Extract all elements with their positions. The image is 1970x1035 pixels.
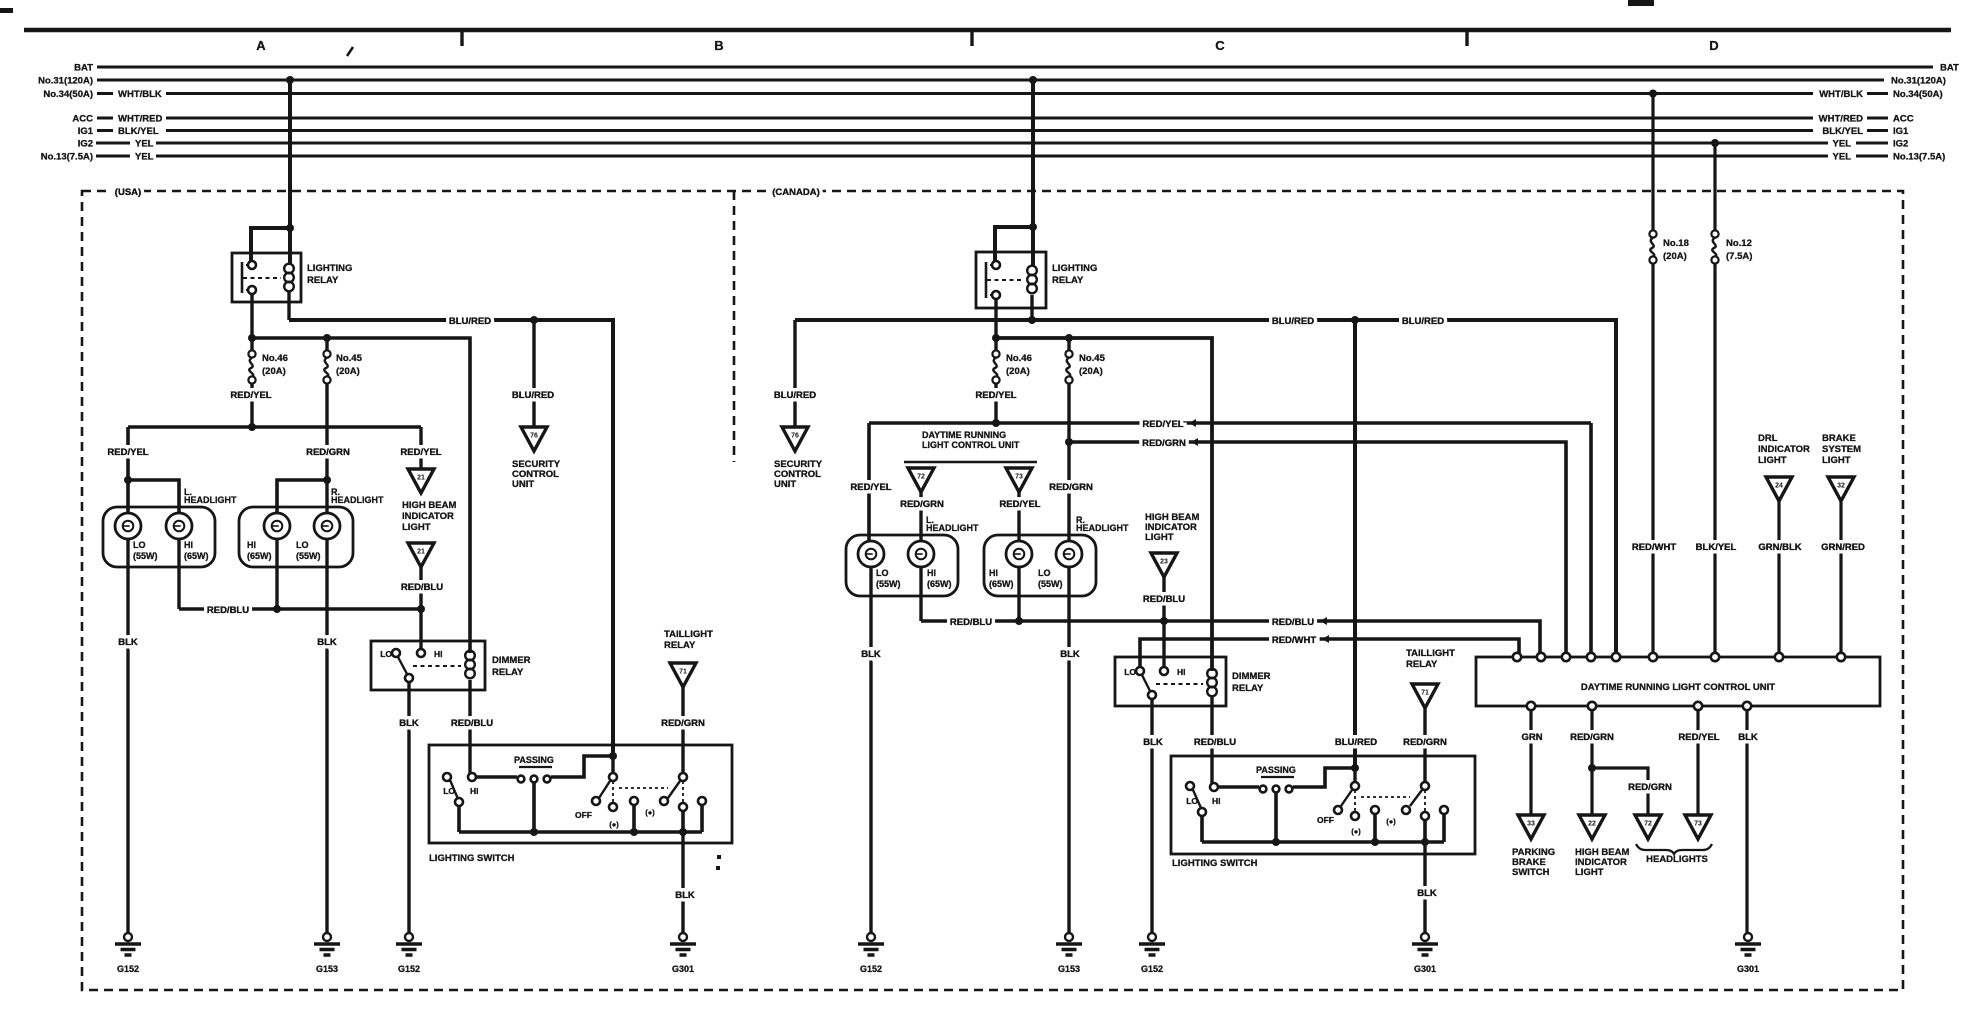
svg-text:YEL: YEL	[1833, 139, 1852, 150]
svg-text:HI: HI	[989, 568, 998, 578]
wire: drop to high beam indicator (USA)	[419, 427, 422, 469]
switch: LIGHTING SWITCH (CANADA) box	[1171, 756, 1475, 854]
dimmer CANADA coil	[1207, 669, 1217, 679]
svg-text:71: 71	[1421, 690, 1429, 697]
connector 73 triangle (headlights pair)	[1685, 815, 1711, 839]
CANADA rotary-2 left contact	[1402, 806, 1410, 814]
svg-text:(USA): (USA)	[115, 187, 141, 198]
node: BLU/RED tap to lighting switch (CANADA)	[1351, 316, 1359, 324]
wire: fuse No.46 output RED/YEL (USA)	[250, 384, 253, 427]
svg-text:(●): (●)	[645, 808, 655, 817]
bulb HI (65W) CANADA R	[1006, 541, 1032, 567]
svg-text:RED/GRN: RED/GRN	[1049, 482, 1093, 493]
node: CANADA relay branch junction	[1029, 223, 1037, 231]
wire: PASSING mid contact to bus (USA)	[532, 783, 536, 832]
svg-text:BLK/YEL: BLK/YEL	[1822, 126, 1863, 137]
svg-text:G152: G152	[117, 964, 139, 974]
svg-text:RED/BLU: RED/BLU	[1143, 594, 1185, 605]
svg-text:G301: G301	[1737, 964, 1759, 974]
relay U1: LIGHTING RELAY (USA) box	[232, 253, 301, 302]
svg-text:(55W): (55W)	[133, 551, 158, 561]
CANADA rotary-1 OFF contact	[1334, 806, 1342, 814]
CANADA rotary-2 mid contact	[1421, 812, 1429, 820]
fuse No.46 (20A) USA	[248, 350, 255, 357]
svg-text:RED/YEL: RED/YEL	[999, 499, 1040, 510]
svg-text:No.45: No.45	[1079, 353, 1106, 364]
dimmer USA pin LO	[392, 649, 400, 657]
scan artifact top-right	[1628, 0, 1654, 6]
svg-text:GRN/RED: GRN/RED	[1821, 542, 1865, 553]
svg-text:No.34(50A): No.34(50A)	[1893, 89, 1943, 100]
svg-text:(CANADA): (CANADA)	[772, 187, 820, 198]
connector 21 triangle upper (USA)	[408, 469, 434, 493]
CANADA rotary-1 right contact	[1371, 806, 1379, 814]
svg-text:INDICATOR: INDICATOR	[1758, 444, 1810, 455]
CANADA rotary link dashed	[1361, 796, 1410, 798]
connector 76 triangle (CANADA security)	[782, 427, 808, 451]
PASSING contact cups (USA)	[518, 776, 525, 783]
svg-text:HI: HI	[184, 540, 193, 550]
wire: L HI bulb to RED/BLU bar (USA)	[177, 539, 180, 609]
svg-text:BLK: BLK	[1738, 732, 1758, 743]
svg-text:G152: G152	[1141, 964, 1163, 974]
svg-text:YEL: YEL	[1833, 152, 1852, 163]
svg-text:BLK: BLK	[317, 637, 337, 648]
scan artifact top-left	[0, 8, 13, 13]
wire: HI contact to PASSING (CANADA)	[1218, 785, 1259, 789]
svg-text:HI: HI	[1212, 796, 1221, 806]
CANADA relay dashed link	[987, 279, 1024, 281]
CANADA switch HI contact	[1210, 783, 1218, 791]
svg-text:TAILLIGHT: TAILLIGHT	[664, 629, 713, 640]
DRL unit bottom pins	[1527, 702, 1535, 710]
svg-text:BLU/RED: BLU/RED	[774, 390, 816, 401]
svg-text:LIGHT: LIGHT	[1145, 532, 1174, 543]
svg-text:LIGHT CONTROL UNIT: LIGHT CONTROL UNIT	[922, 440, 1020, 450]
svg-text:RELAY: RELAY	[492, 667, 524, 678]
connector 23 triangle (CANADA high beam ind)	[1151, 553, 1177, 577]
ground G153 (CANADA R headlight)	[1065, 933, 1073, 941]
wire: RED/BLU bar (USA)	[179, 607, 421, 611]
svg-text:LIGHTING SWITCH: LIGHTING SWITCH	[1172, 858, 1258, 869]
svg-text:PASSING: PASSING	[1256, 765, 1296, 775]
ground G301 (DRL unit)	[1744, 933, 1752, 941]
wire: BLU/RED down to security unit (CANADA)	[793, 320, 796, 427]
svg-text:SYSTEM: SYSTEM	[1822, 444, 1861, 455]
wire: USA relay branch to switch pin	[251, 228, 290, 265]
svg-text:BLK: BLK	[1060, 649, 1080, 660]
svg-text:LO: LO	[133, 540, 146, 550]
wire: to fuse No.18	[1651, 94, 1654, 232]
bus line No.13(7.5A) (YEL)	[156, 155, 1828, 158]
svg-text:DAYTIME RUNNING LIGHT CONTROL: DAYTIME RUNNING LIGHT CONTROL UNIT	[1581, 682, 1775, 693]
node: BLU/RED entry junction (CANADA)	[1351, 764, 1359, 772]
svg-text:HEADLIGHT: HEADLIGHT	[926, 523, 979, 533]
svg-text:C: C	[1215, 38, 1225, 53]
svg-text:BLU/RED: BLU/RED	[449, 316, 491, 327]
svg-text:OFF: OFF	[575, 810, 592, 820]
USA rotary-1 right contact	[630, 797, 638, 805]
svg-text:LO: LO	[1038, 568, 1051, 578]
dashed divider USA/CANADA	[733, 191, 736, 462]
wire: switch ground bus (USA)	[459, 830, 702, 834]
wire: DRL output BLK to ground G301	[1745, 710, 1748, 933]
node: BLU/RED entry junction (USA)	[609, 752, 617, 760]
svg-text:GRN/BLK: GRN/BLK	[1758, 542, 1801, 553]
CANADA switch LO contact	[1186, 782, 1194, 790]
wire: stub to fuse No.45 (USA)	[325, 338, 328, 351]
wire: drop to L.headlight (USA)	[126, 427, 130, 513]
wire: BLU/RED run (CANADA)	[795, 320, 1616, 657]
wire: L LO ground lead BLK (CANADA)	[869, 567, 872, 933]
wire: DRL output GRN to parking brake switch	[1529, 710, 1532, 815]
svg-text:WHT/RED: WHT/RED	[1819, 114, 1863, 125]
U1 dashed link to coil	[243, 277, 281, 279]
dimmer USA common pin	[405, 674, 413, 682]
svg-text:RED/BLU: RED/BLU	[207, 605, 249, 616]
wire: DRL output RED/GRN to high beam indicator light	[1590, 710, 1593, 815]
ground G153 (USA R headlight)	[323, 933, 331, 941]
svg-text:YEL: YEL	[135, 139, 154, 150]
svg-text:No.13(7.5A): No.13(7.5A)	[1893, 152, 1945, 163]
svg-text:BLU/RED: BLU/RED	[1272, 316, 1314, 327]
svg-text:(20A): (20A)	[1663, 251, 1687, 262]
svg-text:UNIT: UNIT	[774, 479, 796, 490]
headlight assembly: R. HEADLIGHT (CANADA) box	[984, 535, 1096, 596]
fuse No.45 (20A) USA	[323, 350, 330, 357]
bulb LO (55W) CANADA L	[858, 541, 884, 567]
wire: CANADA relay coil output to BLU/RED run	[1030, 295, 1033, 320]
svg-text:ACC: ACC	[72, 114, 93, 125]
wire: fuse No.12 output BLK/YEL to DRL unit	[1713, 263, 1716, 657]
scan artifact colon (USA)	[717, 855, 721, 859]
ground G152 (USA dimmer)	[405, 933, 413, 941]
connector 32 triangle (brake system light)	[1828, 477, 1854, 501]
wire: L LO bulb ground lead BLK (USA)	[126, 539, 129, 933]
wire: common to switch bus (USA)	[457, 806, 461, 832]
wire: fuse No.18 output RED/WHT to DRL unit	[1651, 263, 1654, 657]
ground G152 (CANADA L headlight)	[867, 933, 875, 941]
USA switch LO contact	[443, 773, 451, 781]
svg-text:HI: HI	[470, 786, 479, 796]
CANADA relay coil	[1027, 266, 1037, 276]
svg-text:BAT: BAT	[74, 63, 93, 74]
svg-text:G301: G301	[1414, 964, 1436, 974]
node: fuse No.18 tap on WHT/BLK bus	[1649, 90, 1657, 98]
svg-text:IG1: IG1	[1893, 126, 1909, 137]
connector 71 triangle taillight (CANADA)	[1412, 684, 1438, 708]
wire: rotary-1 right contact to bus (USA)	[632, 805, 636, 832]
wire: RED/BLU bar to DRL unit (CANADA)	[921, 621, 1540, 657]
svg-text:BLU/RED: BLU/RED	[1402, 316, 1444, 327]
svg-text:SWITCH: SWITCH	[1512, 867, 1550, 878]
ruler tick C|D	[1465, 32, 1468, 46]
CANADA rotary-1 dashed mid	[1354, 790, 1356, 812]
svg-text:RED/BLU: RED/BLU	[1272, 617, 1314, 628]
wire: dimmer coil to lighting switch RED/BLU (USA)	[468, 680, 471, 777]
svg-text:LO: LO	[296, 540, 309, 550]
USA rotary-2 right contact	[698, 797, 706, 805]
bus line IG1 (BLK/YEL)	[166, 129, 1813, 132]
USA rotary-2 arm	[668, 781, 680, 798]
svg-text:BLU/RED: BLU/RED	[1335, 737, 1377, 748]
wire: 73 to R HI bulb RED/YEL (CANADA)	[1017, 492, 1020, 541]
bulb HI (65W) left USA	[166, 513, 192, 539]
svg-text:No.13(7.5A): No.13(7.5A)	[41, 152, 93, 163]
CANADA rotary-1 mid contact	[1351, 812, 1359, 820]
wire: L HI bulb to RED/BLU bar (CANADA)	[919, 567, 922, 621]
svg-text:22: 22	[1588, 821, 1596, 828]
relay: DIMMER RELAY (CANADA) box	[1115, 657, 1226, 706]
svg-text:BLK: BLK	[1143, 737, 1163, 748]
bulb LO (55W) right USA	[314, 513, 340, 539]
connector 21 triangle lower (USA)	[408, 543, 434, 567]
wire: branch to L HI bulb (USA)	[128, 480, 179, 513]
node: USA relay branch junction	[286, 224, 294, 232]
connector 22 triangle (high beam indicator light)	[1579, 815, 1605, 839]
svg-text:No.46: No.46	[1006, 353, 1032, 364]
svg-text:TAILLIGHT: TAILLIGHT	[1406, 648, 1455, 659]
svg-text:(65W): (65W)	[989, 579, 1014, 589]
node: USA fuse-tie junction	[248, 334, 256, 342]
brace under headlight connectors	[1636, 844, 1712, 854]
dimmer USA pin HI	[417, 649, 425, 657]
svg-text:BLK: BLK	[118, 637, 138, 648]
svg-text:BLK: BLK	[675, 890, 695, 901]
svg-text:33: 33	[1527, 821, 1535, 828]
CANADA rotary-2 right contact	[1440, 806, 1448, 814]
svg-text:76: 76	[530, 433, 538, 440]
svg-text:LIGHT: LIGHT	[1758, 455, 1787, 466]
svg-text:BLK/YEL: BLK/YEL	[1696, 542, 1737, 553]
wire: dimmer common to ground BLK (USA)	[407, 682, 410, 933]
wire: to fuse No.12	[1713, 143, 1716, 231]
svg-text:(55W): (55W)	[296, 551, 321, 561]
wire: indicator to RED/BLU bar and dimmer HI (CANADA)	[1162, 577, 1165, 671]
svg-text:(65W): (65W)	[184, 551, 209, 561]
svg-text:LIGHT: LIGHT	[1822, 455, 1851, 466]
svg-text:RED/GRN: RED/GRN	[1570, 732, 1614, 743]
svg-text:RED/YEL: RED/YEL	[1142, 419, 1183, 430]
dimmer USA coil	[465, 651, 475, 661]
USA rotary-1 mid contact	[609, 803, 617, 811]
svg-text:(65W): (65W)	[927, 579, 952, 589]
CANADA rotary-1 pivot	[1351, 782, 1359, 790]
wire: RED/GRN bar to DRL unit (CANADA)	[1069, 442, 1566, 657]
svg-text:No.18: No.18	[1663, 238, 1689, 249]
svg-text:RED/GRN: RED/GRN	[1403, 737, 1447, 748]
ground G152 (CANADA dimmer)	[1148, 933, 1156, 941]
wire: high beam indicator to RED/BLU net (USA)	[419, 567, 422, 609]
node: CANADA feed tap on No.31 bus	[1029, 76, 1037, 84]
connector 71 triangle taillight (USA)	[670, 663, 696, 687]
svg-text:PASSING: PASSING	[514, 755, 554, 765]
svg-text:DIMMER: DIMMER	[1232, 671, 1271, 682]
svg-text:(●): (●)	[1386, 817, 1396, 826]
svg-text:OFF: OFF	[1317, 815, 1334, 825]
wire: RED/BLU bar to dimmer HI pin (USA)	[419, 609, 422, 653]
USA rotary-2 mid contact	[679, 803, 687, 811]
wire: brake light GRN/RED to DRL unit	[1839, 501, 1842, 657]
svg-text:HEADLIGHT: HEADLIGHT	[331, 495, 384, 505]
svg-text:INDICATOR: INDICATOR	[402, 511, 454, 522]
dimmer CANADA pin HI	[1160, 667, 1168, 675]
USA switch HI contact	[468, 773, 476, 781]
node: fuse No.12 tap on IG2 YEL bus	[1711, 139, 1719, 147]
CANADA dimmer-select common	[1198, 808, 1206, 816]
bulb LO (55W) left USA	[115, 513, 141, 539]
wire: 72 to L HI bulb RED/GRN (CANADA)	[919, 492, 922, 541]
svg-text:RELAY: RELAY	[1406, 659, 1438, 670]
svg-text:LO: LO	[876, 568, 889, 578]
svg-text:(20A): (20A)	[1006, 366, 1030, 377]
U1 armature bar	[241, 262, 244, 293]
node: R.headlight feed split (USA)	[323, 476, 331, 484]
svg-text:BLK: BLK	[861, 649, 881, 660]
node: R HI tap (CANADA)	[1015, 617, 1023, 625]
bracket line under DRL connector label	[904, 461, 1037, 463]
wire: R LO ground lead BLK (CANADA)	[1067, 567, 1070, 933]
svg-text:G153: G153	[316, 964, 338, 974]
svg-text:LO: LO	[1124, 667, 1136, 677]
wire: fuse No.46 output RED/YEL (CANADA)	[994, 384, 997, 423]
USA rotary-2 pivot	[679, 773, 687, 781]
wire: branch to connector 72	[1592, 768, 1648, 815]
wire: bus to ground G301 (CANADA)	[1423, 842, 1426, 933]
ground G301 (USA lighting switch)	[679, 933, 687, 941]
svg-text:RED/GRN: RED/GRN	[1628, 782, 1672, 793]
svg-text:RED/GRN: RED/GRN	[900, 499, 944, 510]
wire: BLU/RED drop to lighting switch (CANADA)	[1353, 320, 1357, 768]
svg-text:No.34(50A): No.34(50A)	[43, 89, 93, 100]
svg-text:RELAY: RELAY	[1232, 683, 1264, 694]
svg-text:DRL: DRL	[1758, 433, 1778, 444]
svg-text:BLK: BLK	[399, 718, 419, 729]
wire: rotary-2 right contact down to bus (USA)	[700, 805, 704, 832]
svg-text:GRN: GRN	[1521, 732, 1542, 743]
U1 coil	[284, 264, 294, 274]
svg-text:21: 21	[417, 549, 425, 556]
wire: R HI bulb to RED/BLU bar (CANADA)	[1017, 567, 1020, 621]
svg-text:IG1: IG1	[78, 126, 94, 137]
wire: rotary-2 mid to bus (CANADA)	[1423, 820, 1427, 842]
svg-text:No.31(120A): No.31(120A)	[1891, 76, 1946, 87]
wire: BLU/RED entry to rotary pivot (USA)	[611, 756, 614, 773]
node: RED/YEL distribution junction (USA)	[248, 423, 256, 431]
svg-text:(7.5A): (7.5A)	[1726, 251, 1752, 262]
USA dimmer-select common	[455, 798, 463, 806]
dimmer CANADA armature	[1142, 675, 1150, 691]
fuse No.12 (7.5A)	[1711, 230, 1718, 237]
svg-text:No.31(120A): No.31(120A)	[38, 76, 93, 87]
wire: fuse tie to dimmer coil feed (CANADA)	[996, 338, 1212, 671]
svg-text:HEADLIGHTS: HEADLIGHTS	[1646, 854, 1708, 865]
svg-text:B: B	[714, 38, 723, 53]
svg-text:HEADLIGHT: HEADLIGHT	[184, 495, 237, 505]
svg-text:G153: G153	[1058, 964, 1080, 974]
wire: BLU/RED run (USA) to lighting switch column	[289, 320, 613, 756]
svg-text:LIGHTING: LIGHTING	[307, 263, 352, 274]
svg-text:No.46: No.46	[262, 353, 288, 364]
svg-text:RED/YEL: RED/YEL	[107, 447, 148, 458]
svg-text:A: A	[256, 38, 266, 53]
svg-text:72: 72	[917, 474, 925, 481]
node: L.headlight feed split (USA)	[124, 476, 132, 484]
wire: dimmer common to ground BLK (CANADA)	[1150, 699, 1153, 933]
node: tie to fuse No.45 (USA)	[323, 334, 331, 342]
bus line No.31(120A)	[97, 79, 1884, 82]
node: CANADA fuse-tie junction	[992, 334, 1000, 342]
wire: R HI bulb to RED/BLU bar (USA)	[275, 539, 278, 609]
wire: dimmer coil to lighting switch RED/BLU (CANADA)	[1210, 697, 1213, 787]
bus line BAT	[97, 66, 1933, 69]
svg-text:RED/WHT: RED/WHT	[1632, 542, 1677, 553]
svg-text:LIGHTING SWITCH: LIGHTING SWITCH	[429, 853, 515, 864]
svg-text:72: 72	[1644, 821, 1652, 828]
wire: rotary-2 mid to bus (USA)	[681, 811, 685, 832]
wire: PASSING right contact to BLU/RED entry (USA)	[551, 756, 613, 777]
wire: CANADA feed vertical to lighting relay	[1031, 80, 1035, 266]
USA dimmer-select armature	[450, 780, 458, 799]
USA rotary-2 dashed to mid	[682, 781, 684, 803]
PASSING contact cups (CANADA)	[1260, 786, 1267, 793]
headlight assembly: L. HEADLIGHT (CANADA) box	[846, 535, 958, 596]
svg-text:DIMMER: DIMMER	[492, 655, 531, 666]
wire: rotary-2 right to bus (CANADA)	[1442, 814, 1446, 842]
svg-text:(55W): (55W)	[1038, 579, 1063, 589]
node: RED/GRN split to headlight connector	[1588, 764, 1596, 772]
svg-text:BLK/YEL: BLK/YEL	[118, 126, 159, 137]
dimmer CANADA common pin	[1148, 691, 1156, 699]
svg-text:21: 21	[417, 475, 425, 482]
svg-text:WHT/BLK: WHT/BLK	[118, 89, 162, 100]
CANADA rotary-2 dashed mid	[1424, 790, 1426, 812]
svg-text:RELAY: RELAY	[664, 640, 696, 651]
ruler tick B|C	[970, 32, 973, 46]
wire: U1 coil output down to BLU/RED run	[287, 292, 290, 320]
connector 72 triangle (CANADA L.headlight)	[908, 468, 934, 492]
DRL unit top pins	[1513, 653, 1521, 661]
wire: HI contact to PASSING contacts (USA)	[476, 775, 517, 779]
svg-text:(55W): (55W)	[876, 579, 901, 589]
svg-text:No.45: No.45	[336, 353, 363, 364]
node: R HI tap on RED/BLU bar (USA)	[273, 605, 281, 613]
wire stubs to fuses (CANADA)	[994, 338, 997, 351]
dimmer CANADA dashed link	[1156, 683, 1203, 685]
bulb LO (55W) CANADA R	[1056, 541, 1082, 567]
svg-text:HI: HI	[1177, 667, 1186, 677]
svg-text:RED/BLU: RED/BLU	[950, 617, 992, 628]
node: indicator tap (CANADA)	[1160, 617, 1168, 625]
svg-text:HI: HI	[434, 649, 443, 659]
svg-text:RED/GRN: RED/GRN	[661, 718, 705, 729]
svg-text:73: 73	[1015, 474, 1023, 481]
svg-text:IG2: IG2	[78, 139, 93, 150]
CANADA dimmer-select armature	[1193, 790, 1201, 808]
USA rotary-1 OFF contact	[592, 797, 600, 805]
node: coil tap on BLU/RED (CANADA)	[1028, 316, 1036, 324]
CANADA relay pins	[992, 261, 1000, 269]
wire: switch bus to ground G301 (USA)	[681, 832, 684, 933]
USA rotary-1 dashed to mid contact	[612, 781, 614, 803]
USA rotary dashed link to rotary-2	[619, 787, 668, 789]
wire: PASSING right to BLU/RED entry (CANADA)	[1293, 768, 1355, 787]
CANADA rotary-1 arm	[1341, 790, 1352, 806]
svg-text:32: 32	[1837, 483, 1845, 490]
wire: DRL output RED/YEL to headlights connector 73	[1696, 710, 1699, 815]
svg-text:HIGH BEAM: HIGH BEAM	[402, 500, 456, 511]
svg-text:RED/YEL: RED/YEL	[975, 390, 1016, 401]
